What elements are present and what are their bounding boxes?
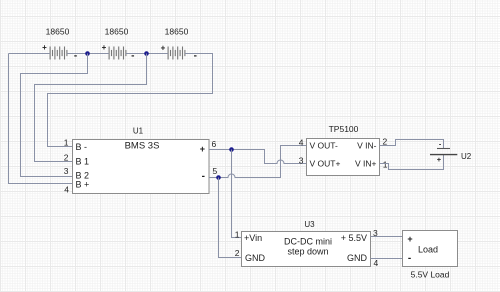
svg-text:6: 6: [212, 139, 217, 149]
svg-text:4: 4: [299, 137, 304, 147]
svg-text:B 1: B 1: [76, 157, 90, 167]
svg-text:V IN-: V IN-: [357, 141, 377, 151]
DC-DC U3 box: [242, 232, 371, 267]
svg-text:+Vin: +Vin: [244, 233, 262, 243]
svg-text:+: +: [161, 43, 166, 52]
svg-text:-: -: [194, 51, 197, 62]
svg-text:V OUT+: V OUT+: [310, 159, 341, 169]
battery U2 positive plate: [430, 154, 457, 156]
wire U3 pin 3 to Load plus: [371, 236, 403, 238]
svg-text:1: 1: [64, 138, 69, 148]
svg-text:U2: U2: [461, 152, 472, 161]
wire TP5100 pin 1 to U2 positive: [380, 155, 444, 170]
wire BT1 plus to left rail: [9, 53, 51, 55]
svg-text:5: 5: [213, 166, 218, 176]
svg-text:GND: GND: [245, 253, 266, 263]
node junction BT1/BT2: [85, 51, 90, 56]
svg-text:18650: 18650: [105, 27, 129, 37]
svg-text:2: 2: [383, 136, 388, 146]
svg-text:TP5100: TP5100: [329, 124, 359, 134]
svg-text:+ 5.5V: + 5.5V: [341, 233, 367, 243]
svg-text:B +: B +: [76, 180, 90, 190]
svg-text:5.5V Load: 5.5V Load: [411, 269, 450, 279]
BMS U1 box: [73, 140, 210, 194]
svg-text:-: -: [74, 51, 77, 62]
svg-text:V IN+: V IN+: [355, 159, 377, 169]
wire junction BT1/BT2 down to BMS pin 3: [21, 54, 88, 177]
node junction on pin 5 net: [216, 175, 221, 180]
svg-text:3: 3: [64, 166, 69, 176]
svg-text:4: 4: [374, 258, 379, 268]
wire BT1 minus to BT2 plus: [67, 53, 109, 55]
svg-text:V OUT-: V OUT-: [310, 141, 339, 151]
svg-text:+: +: [200, 144, 205, 154]
svg-text:2: 2: [235, 248, 240, 258]
wire pin 6 junction down to U3 pin 1: [232, 150, 243, 238]
battery U2 negative plate: [437, 148, 450, 150]
svg-text:DC-DC mini: DC-DC mini: [284, 236, 332, 246]
battery BT1 18650: [50, 47, 67, 60]
svg-text:U3: U3: [304, 220, 315, 229]
svg-text:U1: U1: [133, 127, 144, 136]
node junction BT2/BT3: [144, 51, 149, 56]
TP5100 U4 box: [307, 139, 380, 176]
svg-text:+: +: [407, 234, 412, 244]
svg-text:+: +: [42, 43, 47, 52]
svg-text:18650: 18650: [46, 27, 70, 37]
Load box: [403, 231, 458, 267]
svg-text:-: -: [202, 171, 205, 182]
svg-text:2: 2: [64, 152, 69, 162]
svg-text:B -: B -: [76, 142, 88, 152]
svg-text:18650: 18650: [165, 27, 189, 37]
wire U3 pin 4 to Load minus: [371, 258, 403, 260]
svg-text:Load: Load: [418, 244, 438, 254]
node junction on pin 6 net: [229, 147, 234, 152]
svg-text:1: 1: [235, 229, 240, 239]
svg-text:4: 4: [64, 185, 69, 195]
wire BMS pin 5 to TP5100 pin 4 (with hop over vertical): [209, 146, 307, 178]
battery BT3 18650: [168, 47, 185, 60]
svg-text:-: -: [131, 50, 134, 61]
wire pin 5 junction down to U3 pin 2: [219, 178, 243, 258]
svg-text:BMS 3S: BMS 3S: [125, 141, 160, 152]
svg-text:+: +: [102, 43, 107, 52]
wire TP5100 pin 2 to U2 negative: [380, 140, 444, 149]
svg-text:3: 3: [299, 155, 304, 165]
wire BMS pin 6 to TP5100 pin 3 (with hop over vertical): [209, 150, 307, 164]
svg-text:1: 1: [383, 160, 388, 170]
wire BT2 minus to BT3 plus: [126, 53, 168, 55]
wire B+ rail down to BMS pin 4: [9, 54, 74, 184]
wire BT3 minus to BMS pin 1: [48, 54, 213, 147]
svg-text:-: -: [408, 253, 411, 264]
svg-text:GND: GND: [347, 253, 368, 263]
svg-text:step down: step down: [287, 246, 328, 256]
svg-text:+: +: [437, 155, 442, 164]
wire junction BT2/BT3 down to BMS pin 2: [35, 54, 147, 162]
battery BT2 18650: [109, 47, 126, 60]
